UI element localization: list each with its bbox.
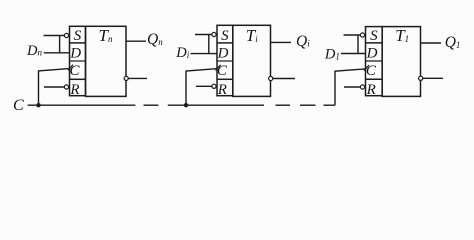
svg-text:Ti: Ti (246, 26, 258, 45)
FF2 Q-bar output negation bubble (269, 76, 273, 80)
svg-text:S: S (221, 28, 229, 44)
svg-text:Q1: Q1 (445, 34, 461, 51)
svg-text:Tn: Tn (99, 26, 113, 45)
wire FF1 S input stub (44, 35, 65, 37)
svg-text:S: S (370, 28, 378, 44)
wire clock bus dash 1 (between FF2 and FF3) (276, 104, 291, 106)
wire FF3 Q output (421, 42, 442, 44)
svg-text:C: C (13, 97, 24, 114)
wire FF2 S-to-D vertical tie (208, 35, 210, 54)
FF3 Q-bar output negation bubble (419, 76, 423, 80)
wire FF2 S input stub (195, 34, 212, 36)
flip-flop FF3 control block outline (366, 27, 383, 96)
junction clock bus to FF2 branch (184, 103, 188, 107)
flip-flop FF2 main box Ti (233, 25, 271, 96)
svg-text:C: C (366, 63, 377, 79)
svg-text:Di: Di (175, 45, 189, 61)
FF3 S input negation bubble (360, 33, 364, 37)
FF3 divider D/C (366, 60, 383, 62)
FF1 Q-bar output negation bubble (124, 76, 128, 80)
FF2 divider S/D (217, 42, 233, 44)
svg-text:Qn: Qn (147, 31, 163, 48)
wire FF1 D input from Dn (44, 52, 70, 54)
wire clock bus dash (between FF1 and FF2) (144, 104, 159, 106)
FF3 divider C/R (366, 78, 383, 80)
FF2 divider D/C (217, 60, 233, 62)
wire FF2 D input from Di (191, 53, 218, 55)
junction clock bus to FF1 branch (36, 103, 40, 107)
FF2 dynamic clock input tick (216, 65, 221, 71)
wire FF3 D input from D1 (341, 53, 366, 55)
wire FF2 Q-bar output stub (273, 78, 295, 80)
svg-text:S: S (74, 28, 82, 44)
FF1 divider D/C (70, 60, 86, 62)
wire clock bus segment 1 (from C past FF1) (28, 104, 136, 106)
FF3 dynamic clock input tick (364, 65, 369, 71)
svg-text:R: R (69, 82, 79, 98)
svg-text:Qi: Qi (296, 33, 310, 50)
wire FF2 Q output (271, 41, 292, 43)
svg-text:R: R (217, 82, 227, 98)
FF2 divider C/R (217, 78, 233, 80)
wire FF1 Q-bar output stub (129, 77, 148, 79)
svg-text:Dn: Dn (26, 43, 42, 59)
wire FF2 clock branch (bus up to C input) (186, 69, 217, 106)
flip-flop FF1 control block outline (70, 26, 86, 95)
wire clock bus dash 2 (between FF2 and FF3) (300, 104, 316, 106)
wire clock bus segment 2 (past FF2) (168, 104, 264, 106)
FF1 S input negation bubble (64, 33, 68, 37)
wire FF3 S input stub (344, 34, 361, 36)
FF1 dynamic clock input tick (68, 65, 73, 71)
FF3 R input negation bubble (360, 85, 364, 89)
flip-flop FF2 control block outline (217, 25, 233, 95)
svg-text:D: D (69, 45, 81, 61)
svg-text:C: C (69, 63, 80, 79)
svg-text:R: R (366, 82, 376, 98)
wire FF3 clock branch (bus up to C input) (335, 69, 365, 105)
wire FF1 R input stub (44, 86, 64, 88)
svg-text:D: D (217, 45, 229, 61)
svg-text:C: C (217, 63, 228, 79)
wire FF1 Q output (126, 40, 146, 42)
FF1 divider S/D (70, 42, 86, 44)
FF2 S input negation bubble (212, 32, 216, 36)
wire FF3 R input stub (344, 86, 360, 88)
svg-text:D1: D1 (324, 47, 340, 63)
svg-text:D: D (366, 45, 378, 61)
wire FF3 S-to-D vertical tie (357, 35, 359, 54)
wire clock bus segment 3 (to FF3 clock branch) (324, 104, 336, 106)
flip-flop FF3 main box T1 (382, 27, 420, 97)
FF2 R input negation bubble (212, 84, 216, 88)
wire FF1 S-to-D vertical tie (59, 36, 61, 53)
FF1 R input negation bubble (64, 85, 68, 89)
svg-text:T1: T1 (395, 26, 409, 45)
FF3 divider S/D (366, 42, 383, 44)
wire FF2 R input stub (196, 85, 212, 87)
flip-flop FF1 main box Tn (86, 26, 127, 96)
wire FF1 clock branch (bus up to C input) (39, 69, 70, 106)
FF1 divider C/R (70, 78, 86, 80)
wire FF3 Q-bar output stub (423, 77, 443, 79)
